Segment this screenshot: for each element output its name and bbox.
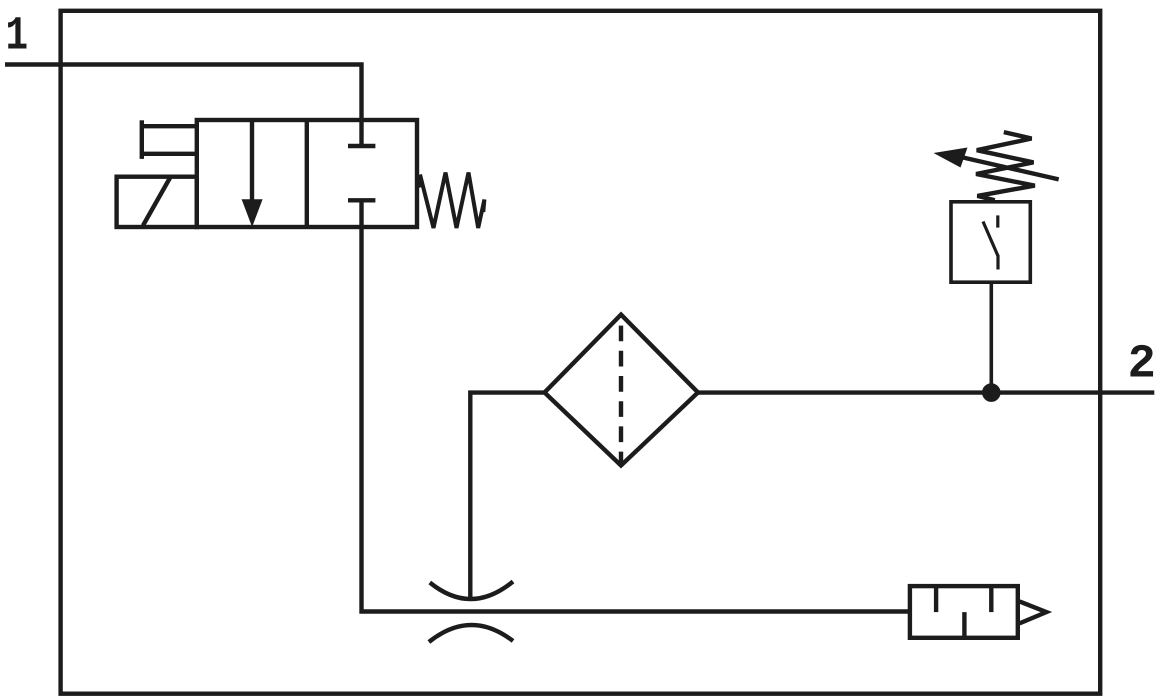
svg-text:1: 1 [6, 10, 29, 63]
svg-text:2: 2 [1128, 338, 1156, 391]
